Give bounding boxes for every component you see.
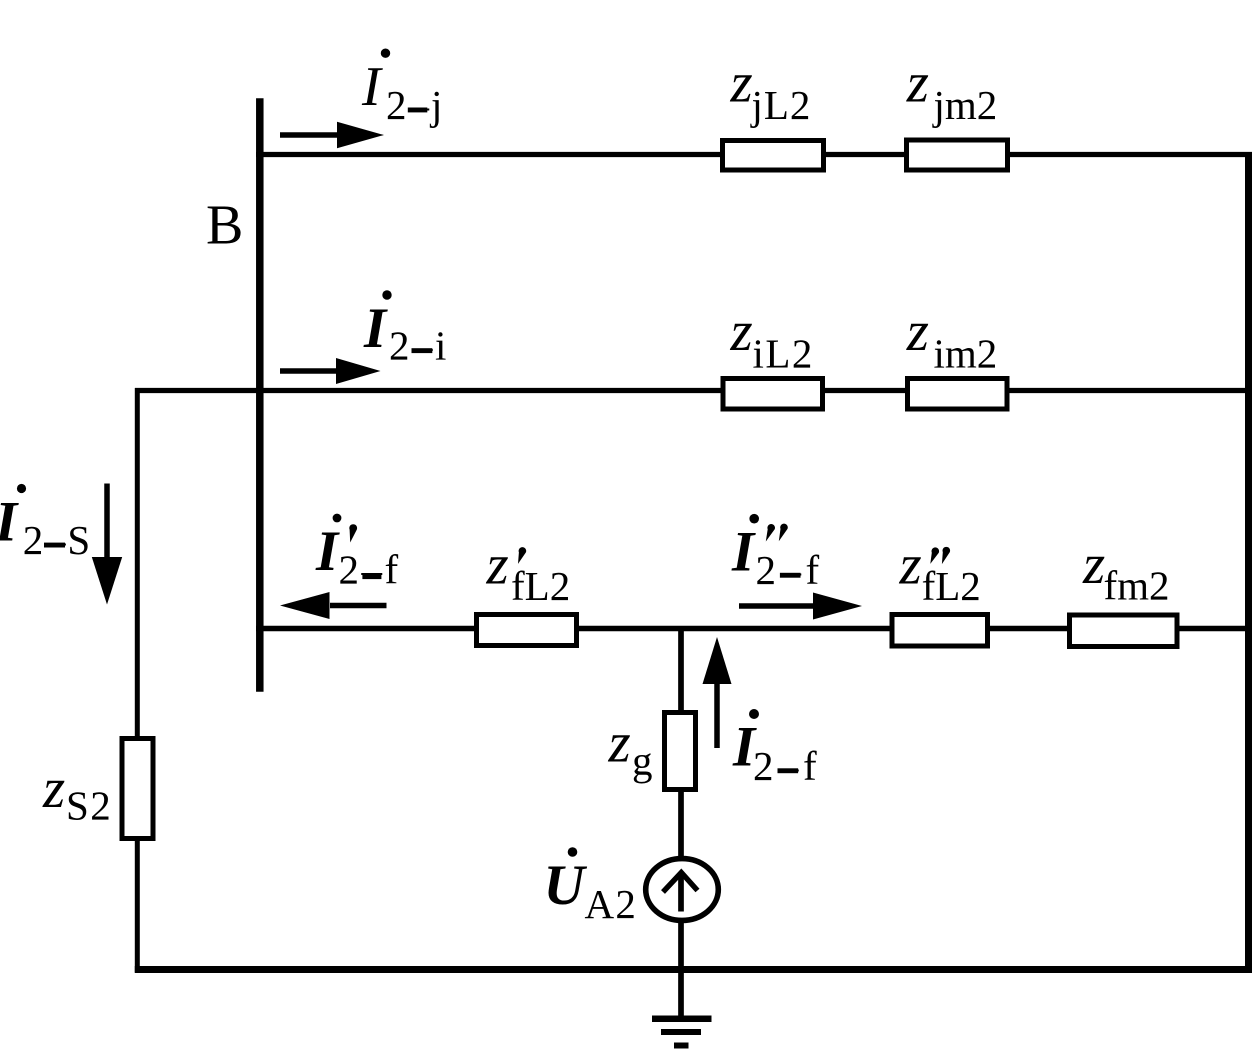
resistor z_iL2: [723, 379, 823, 410]
wire left branch: [135, 388, 140, 973]
current arrow I''2-f right: [739, 603, 817, 609]
wire zg branch upper: [678, 628, 684, 858]
current arrow I2-S: [104, 484, 110, 560]
wire line 1 top feeder: [256, 152, 1252, 157]
svg-text:2–i: 2–i: [389, 323, 449, 369]
svg-text:z: z: [906, 52, 929, 115]
svg-text:jL2: jL2: [750, 82, 812, 128]
resistor z_jL2: [723, 141, 824, 171]
resistor z_im2: [908, 379, 1008, 410]
current arrow I2-f up: [714, 682, 720, 748]
svg-text:U: U: [544, 854, 588, 917]
svg-text:I: I: [0, 491, 19, 554]
svg-text:I: I: [315, 520, 340, 583]
current arrow I2-j: [280, 132, 341, 138]
wire bottom return: [135, 966, 1252, 973]
svg-text:2–S: 2–S: [23, 517, 92, 563]
svg-text:z: z: [730, 300, 753, 363]
resistor z_jm2: [907, 140, 1008, 170]
svg-text:B: B: [206, 195, 243, 257]
bus bar B: [256, 98, 264, 691]
svg-text:jm2: jm2: [932, 82, 998, 128]
resistor z''_fL2: [892, 615, 988, 647]
wire line 3 faulted feeder: [256, 626, 1252, 632]
svg-text:2–f: 2–f: [756, 547, 824, 593]
svg-text:im2: im2: [934, 331, 998, 377]
ground: [652, 1016, 712, 1023]
svg-text:2–f: 2–f: [339, 547, 401, 593]
wire line 2 middle feeder: [135, 388, 1252, 393]
svg-text:z: z: [1082, 533, 1105, 596]
wire zg branch lower: [678, 921, 684, 1016]
resistor z_S2: [122, 739, 153, 839]
current arrow I'2-f left: [330, 603, 387, 609]
svg-text:fm2: fm2: [1104, 563, 1170, 609]
svg-text:z: z: [486, 534, 509, 597]
svg-text:2–f: 2–f: [753, 743, 821, 789]
svg-text:2–j: 2–j: [386, 82, 444, 128]
svg-text:I: I: [361, 56, 383, 118]
svg-text:A2: A2: [585, 881, 638, 927]
source arrow: [678, 872, 684, 912]
svg-text:z: z: [899, 534, 922, 597]
wire right vertical: [1245, 152, 1252, 973]
svg-text:fL2: fL2: [511, 563, 570, 609]
svg-text:g: g: [632, 738, 653, 784]
svg-text:z: z: [906, 300, 929, 363]
svg-text:z: z: [42, 757, 65, 820]
resistor z_fm2: [1070, 615, 1178, 647]
current arrow I2-i: [280, 368, 341, 374]
svg-text:iL2: iL2: [753, 331, 814, 377]
svg-text:z: z: [608, 712, 631, 775]
resistor z_g: [665, 713, 696, 790]
svg-text:z: z: [730, 52, 753, 115]
svg-text:I: I: [731, 521, 756, 584]
voltage source U_A2: [646, 859, 719, 921]
svg-text:fL2: fL2: [922, 563, 981, 609]
svg-text:S2: S2: [66, 783, 112, 829]
svg-text:I: I: [363, 297, 388, 360]
resistor z'_fL2: [477, 615, 577, 646]
